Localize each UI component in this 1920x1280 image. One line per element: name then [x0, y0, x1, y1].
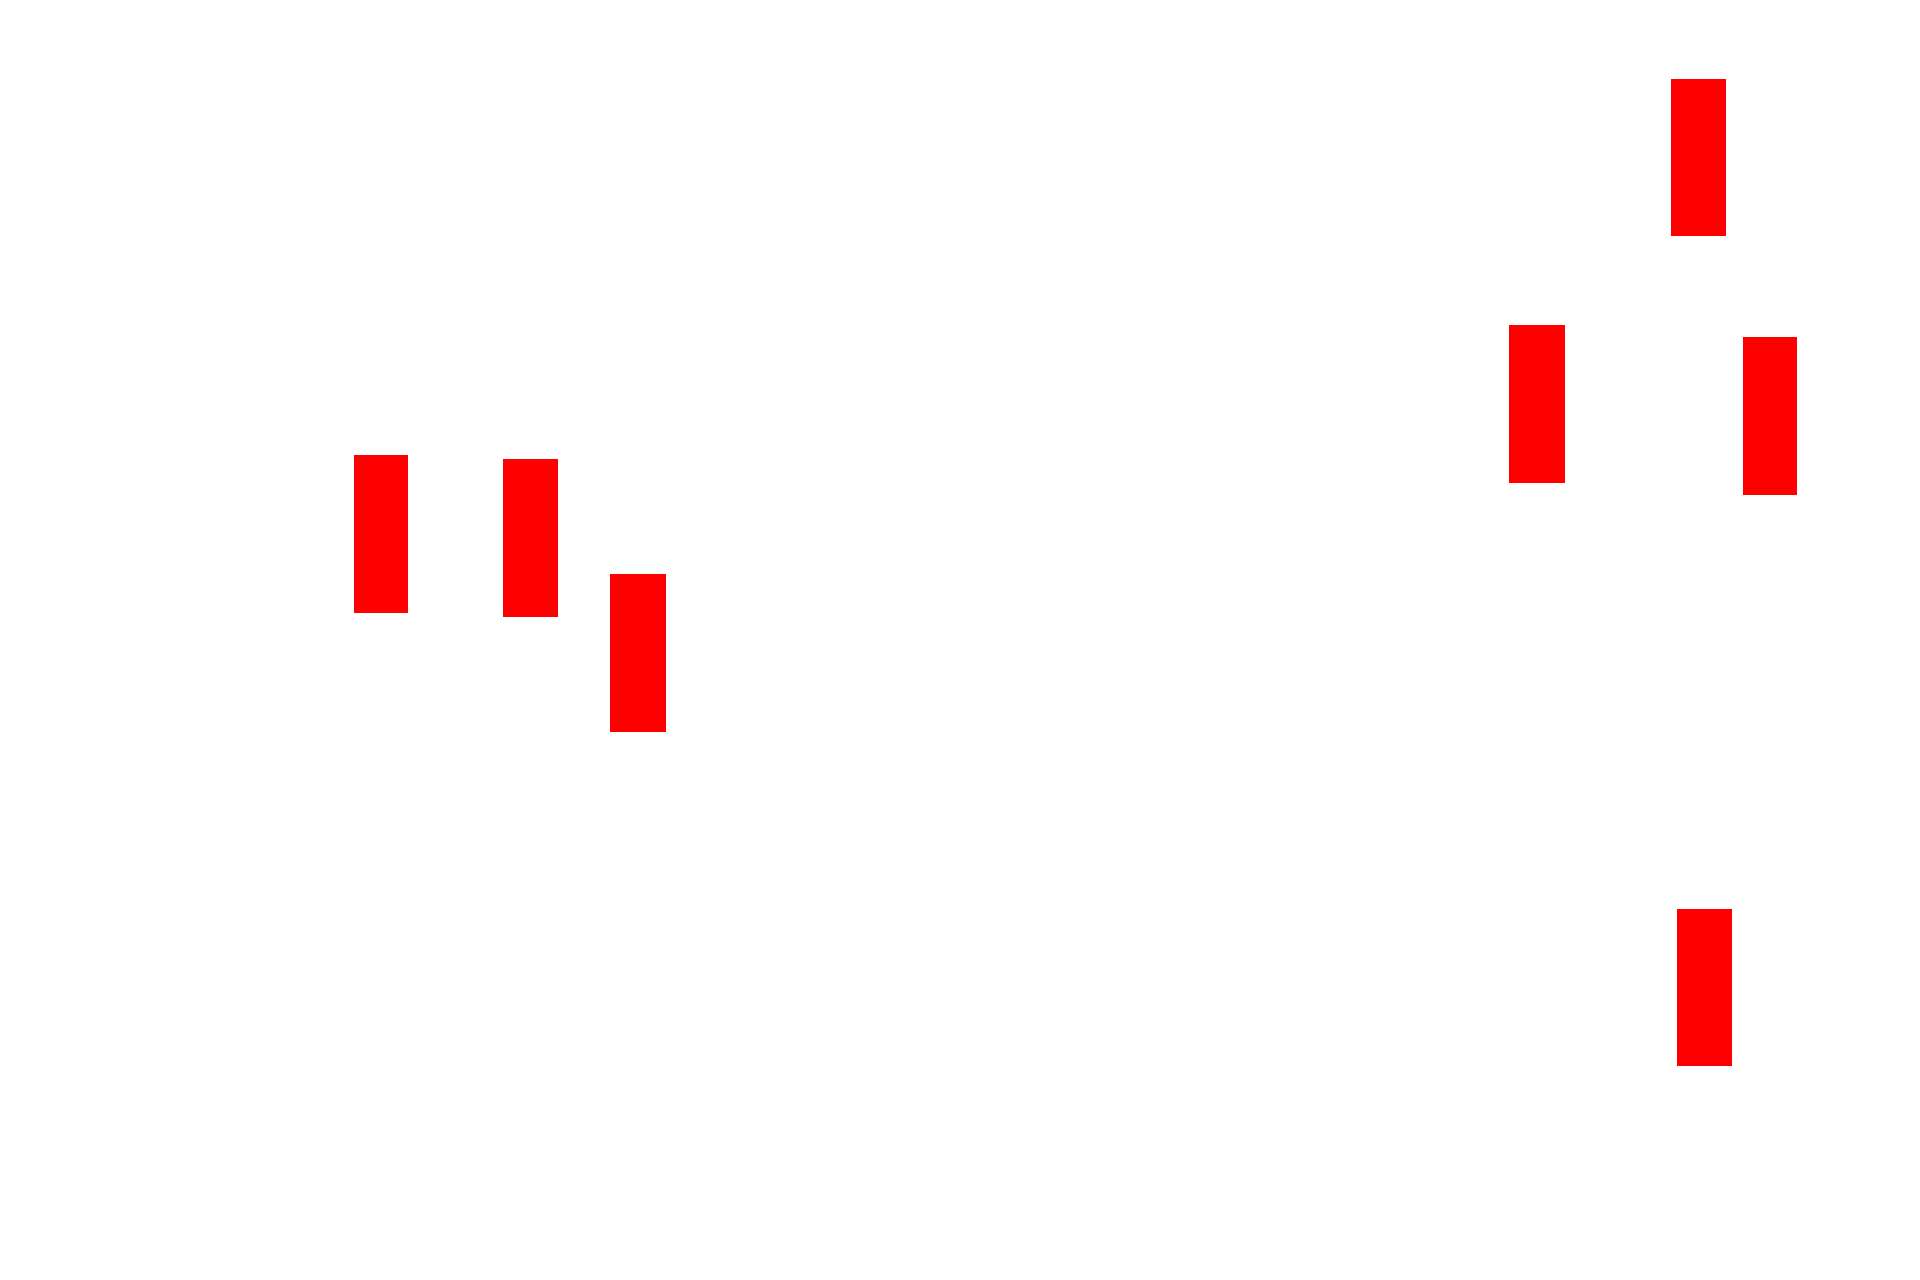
red candle bar 4 (top right)	[1671, 79, 1726, 236]
red candle bar 3 (left group, third)	[610, 574, 666, 732]
red candle bar 1 (left group, first)	[354, 455, 408, 613]
red candle bar 5 (right middle, left)	[1509, 325, 1565, 483]
red candle bar 6 (right middle, right)	[1743, 337, 1797, 495]
red candle bar 2 (left group, second)	[503, 459, 558, 617]
red candle bar 7 (bottom right)	[1677, 909, 1732, 1066]
